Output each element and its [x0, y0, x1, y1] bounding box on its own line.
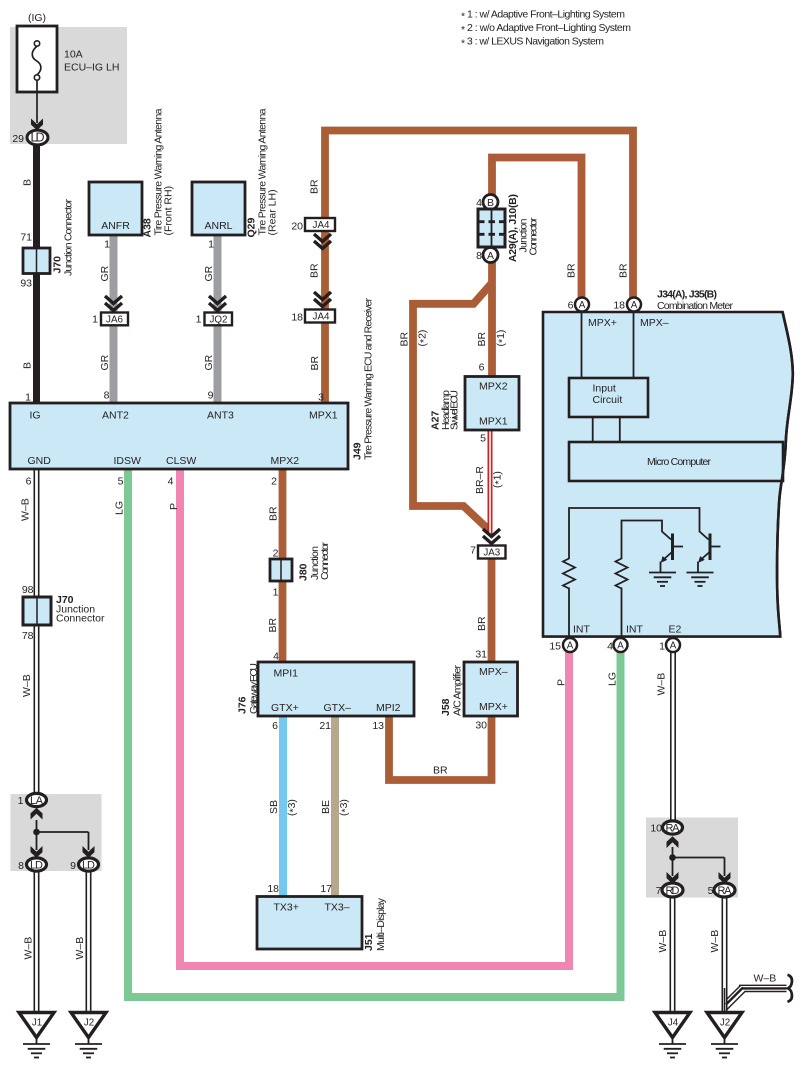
svg-text:SB: SB — [268, 800, 280, 814]
ground J2 (right) — [707, 1013, 742, 1058]
antenna A38 ANFR Tire Pressure Warning Antenna (Front RH) — [89, 108, 175, 250]
svg-text:LD: LD — [31, 131, 45, 145]
svg-text:LG: LG — [114, 501, 126, 515]
svg-text:ANT2: ANT2 — [102, 410, 129, 422]
svg-text:MPX+: MPX+ — [588, 317, 617, 329]
svg-text:INT: INT — [626, 624, 644, 636]
svg-text:CLSW: CLSW — [166, 455, 196, 467]
svg-text:78: 78 — [22, 630, 34, 642]
svg-text:J4: J4 — [668, 1018, 679, 1029]
junction JA4 pin 18 — [291, 292, 335, 324]
meter top pin 18 (A) — [613, 298, 641, 312]
wire W-B branch stub with brace — [725, 973, 792, 1014]
internal wire to transistor Q2 collector — [569, 508, 709, 558]
svg-text:7: 7 — [470, 545, 476, 557]
svg-text:RA: RA — [718, 885, 733, 897]
svg-text:MPX+: MPX+ — [479, 701, 508, 713]
connector oval LD pin 29 — [12, 130, 48, 145]
wire BR from J49 MPX1 pin 3 via JA4 to Combination Meter MPX- pin 18 — [309, 131, 634, 405]
wire LG from J49 IDSW pin 5 to Combination Meter INT pin 4 — [114, 469, 621, 997]
svg-text:MPI1: MPI1 — [274, 668, 299, 680]
svg-text:A: A — [579, 300, 586, 311]
wire BR (*1) from junction A29 pin 8 to A27 MPX2 pin 6 — [476, 262, 509, 377]
svg-text:ANT3: ANT3 — [207, 410, 234, 422]
svg-text:13: 13 — [372, 720, 384, 732]
connector panel (RA/RD ovals) — [646, 818, 738, 898]
svg-text:MPX1: MPX1 — [479, 416, 508, 428]
ground J1 — [19, 1013, 54, 1058]
svg-text:9: 9 — [70, 860, 76, 872]
svg-text:5: 5 — [118, 476, 124, 488]
svg-text:BR: BR — [399, 331, 411, 346]
transistor Q1 — [661, 534, 684, 574]
svg-text:MPX2: MPX2 — [271, 455, 300, 467]
svg-text:J76: J76 — [237, 696, 249, 714]
wire W-B from RA 5 to ground J2 — [709, 896, 725, 1013]
svg-text:JA4: JA4 — [313, 312, 330, 323]
input circuit block — [569, 378, 648, 417]
svg-text:18: 18 — [291, 312, 303, 324]
svg-text:Input: Input — [593, 383, 616, 395]
arrow up below RA — [667, 836, 679, 848]
svg-text:B: B — [487, 197, 494, 209]
ground J2 (left) — [71, 1013, 106, 1058]
junction connector J70 lower pins 98/78 — [22, 584, 105, 642]
svg-text:1: 1 — [208, 239, 214, 251]
svg-text:Combination Meter: Combination Meter — [657, 300, 734, 312]
svg-text:MPX1: MPX1 — [309, 410, 338, 422]
svg-text:W–B: W–B — [754, 973, 777, 985]
svg-text:1: 1 — [196, 314, 202, 326]
wire BR from JA3 to J58 MPX- pin 31 — [475, 559, 491, 664]
svg-text:BR: BR — [309, 263, 321, 278]
svg-text:INT: INT — [573, 624, 591, 636]
amplifier J58 A/C Amplifier — [440, 662, 518, 716]
svg-text:31: 31 — [475, 649, 487, 661]
multi-display J51 pins 18/17 — [257, 883, 387, 951]
wire BR from junction A29 to Combination Meter MPX+ pin 6 — [492, 158, 582, 301]
svg-text:2: 2 — [271, 476, 277, 488]
wire W-B from Combination Meter E2 pin 1 to RA oval 10 — [656, 651, 674, 822]
svg-text:6: 6 — [272, 720, 278, 732]
svg-text:Connector: Connector — [319, 542, 331, 581]
svg-text:1: 1 — [104, 239, 110, 251]
svg-text:29: 29 — [12, 133, 24, 145]
svg-text:A: A — [567, 641, 574, 652]
svg-text:17: 17 — [320, 883, 332, 895]
connector oval RA pin 5 — [708, 883, 735, 897]
svg-text:BR: BR — [476, 331, 488, 346]
svg-text:93: 93 — [20, 278, 32, 290]
svg-text:Tire Pressure Warning ECU and: Tire Pressure Warning ECU and Receiver — [363, 298, 375, 461]
svg-text:BR: BR — [268, 506, 280, 521]
svg-text:(IG): (IG) — [28, 12, 46, 24]
svg-text:15: 15 — [549, 641, 561, 653]
svg-text:4: 4 — [607, 641, 613, 653]
svg-text:(Front RH): (Front RH) — [163, 186, 175, 236]
connector oval LA pin 1 — [18, 793, 47, 807]
ground inside meter (Q2) — [687, 573, 714, 587]
wires input circuit to micro computer — [593, 417, 620, 442]
wire MPX+ to input circuit — [581, 312, 583, 378]
svg-text:A: A — [631, 300, 638, 311]
junction JA3 pin 7 — [470, 529, 505, 559]
svg-text:W–B: W–B — [709, 930, 721, 953]
wire BE (*3) from J76 GTX- pin 21 to J51 TX3- pin 17 — [320, 716, 352, 897]
svg-text:P: P — [168, 503, 180, 510]
wire B (black) from fuse LD to J49 IG pin 1 — [22, 140, 37, 404]
svg-text:MPX2: MPX2 — [479, 381, 508, 393]
meter bottom pin 1 (A) — [659, 638, 680, 653]
meter bottom pin 4 (A) — [607, 638, 627, 653]
svg-text:JA6: JA6 — [106, 315, 123, 326]
junction JA6 pin 1 — [92, 296, 128, 402]
meter bottom pin 15 (A) — [549, 638, 577, 653]
svg-text:Circuit: Circuit — [593, 394, 623, 406]
wire W-B from J49 GND pin 6 to LA oval — [20, 469, 37, 795]
svg-text:BR: BR — [476, 616, 488, 631]
transistor Q2 — [698, 534, 721, 574]
svg-text:Junction Connector: Junction Connector — [63, 199, 75, 277]
svg-text:J1: J1 — [32, 1018, 42, 1029]
svg-text:98: 98 — [22, 584, 34, 596]
svg-text:B: B — [22, 362, 34, 369]
svg-text:BR: BR — [309, 355, 321, 370]
svg-text:W–B: W–B — [656, 673, 668, 696]
svg-text:ANFR: ANFR — [101, 220, 130, 232]
svg-text:10A: 10A — [64, 49, 83, 61]
svg-text:BR: BR — [618, 263, 630, 278]
svg-text:J51: J51 — [363, 933, 375, 951]
junction connector A29(A), J10(B) — [476, 194, 539, 263]
svg-text:6: 6 — [479, 362, 485, 374]
svg-text:A: A — [670, 641, 677, 652]
wire from fuse to LD oval 29 — [31, 81, 43, 131]
svg-text:(*1): (*1) — [492, 471, 506, 488]
svg-text:W–B: W–B — [74, 937, 86, 960]
connector panel (LA/LD ovals) — [11, 794, 102, 871]
junction JQ2 pin 1 — [196, 296, 232, 402]
svg-text:4: 4 — [476, 197, 482, 209]
svg-text:MPI2: MPI2 — [376, 702, 401, 714]
wire W-B from LD 9 to ground J2 — [74, 870, 89, 1013]
svg-text:ECU–IG LH: ECU–IG LH — [64, 62, 119, 74]
svg-text:TX3–: TX3– — [325, 902, 350, 914]
svg-text:9: 9 — [208, 390, 214, 402]
svg-text:18: 18 — [267, 883, 279, 895]
wire and junction dot in LA/LD panel — [33, 820, 88, 850]
svg-text:BR: BR — [267, 617, 279, 632]
svg-text:W–B: W–B — [657, 930, 669, 953]
svg-text:J34(A), J35(B): J34(A), J35(B) — [657, 289, 717, 301]
svg-text:21: 21 — [319, 720, 331, 732]
meter top pin 6 (A) — [568, 298, 589, 312]
wire SB (*3) from J76 GTX+ pin 6 to J51 TX3+ pin 18 — [268, 716, 300, 897]
svg-text:J2: J2 — [720, 1018, 730, 1029]
svg-text:1: 1 — [659, 641, 665, 653]
svg-text:JQ2: JQ2 — [210, 315, 228, 326]
svg-text:10: 10 — [650, 823, 662, 835]
svg-text:BR–R: BR–R — [474, 466, 486, 494]
svg-text:BR: BR — [433, 765, 448, 777]
svg-text:E2: E2 — [669, 624, 682, 636]
svg-text:W–B: W–B — [23, 937, 35, 960]
ground inside meter (Q1) — [649, 573, 676, 587]
svg-text:(Rear LH): (Rear LH) — [267, 189, 279, 235]
connector oval RA pin 10 — [650, 821, 682, 835]
svg-text:GND: GND — [28, 455, 52, 467]
wire BR from J58 MPX+ pin 30 to J76 MPI2 pin 13 — [389, 716, 492, 780]
ground J4 — [655, 1013, 690, 1058]
svg-text:IG: IG — [30, 410, 41, 422]
svg-text:GR: GR — [99, 354, 111, 370]
combination meter J34(A), J35(B) — [543, 289, 793, 637]
fuse block panel — [10, 27, 127, 144]
svg-text:LD: LD — [82, 859, 95, 871]
note legend *1 *2 *3 — [461, 9, 631, 50]
internal wire to transistor Q1 collector — [622, 521, 672, 559]
svg-text:LD: LD — [30, 859, 43, 871]
junction JA4 pin 20 — [291, 218, 335, 249]
svg-text:(*2): (*2) — [417, 330, 431, 347]
gateway ECU J76 — [237, 651, 415, 733]
ECU A27 Headlamp Swivel ECU — [430, 362, 520, 445]
wire P from J49 CLSW pin 4 to Combination Meter INT pin 15 — [168, 469, 569, 966]
svg-text:J2: J2 — [84, 1018, 94, 1029]
wire BR (*2) branch from A29 pin 8 to junction JA3 — [399, 284, 492, 530]
svg-text:1: 1 — [273, 587, 279, 599]
svg-text:Connector: Connector — [56, 613, 105, 625]
svg-text:IDSW: IDSW — [114, 455, 142, 467]
connector oval RD pin 7 — [656, 883, 683, 897]
svg-text:BE: BE — [320, 800, 332, 814]
svg-text:MPX–: MPX– — [640, 317, 669, 329]
svg-text:71: 71 — [20, 232, 32, 244]
svg-text:20: 20 — [291, 221, 303, 233]
svg-text:RA: RA — [666, 822, 681, 834]
svg-text:Connector: Connector — [528, 217, 540, 256]
svg-text:18: 18 — [613, 300, 625, 312]
svg-text:GTX+: GTX+ — [271, 702, 299, 714]
svg-text:GR: GR — [203, 265, 215, 281]
svg-text:Swivel ECU: Swivel ECU — [449, 390, 461, 430]
svg-text:(*3): (*3) — [286, 799, 300, 816]
svg-text:GTX–: GTX– — [324, 702, 352, 714]
meter torn right edge — [777, 312, 793, 637]
svg-text:RD: RD — [666, 885, 680, 897]
ECU J49 Tire Pressure Warning ECU and Receiver — [10, 298, 375, 488]
svg-text:LG: LG — [607, 672, 619, 686]
svg-text:(*3): (*3) — [338, 799, 352, 816]
svg-text:8: 8 — [476, 250, 482, 262]
svg-text:A/C Amplifier: A/C Amplifier — [452, 665, 464, 717]
svg-text:J80: J80 — [298, 563, 310, 581]
arrow down to LD 9 — [83, 846, 95, 858]
micro computer block — [569, 442, 783, 481]
svg-text:LA: LA — [30, 795, 44, 807]
svg-text:TX3+: TX3+ — [274, 902, 299, 914]
wire W-B from RD 7 to ground J4 — [657, 896, 673, 1013]
svg-text:BR: BR — [309, 179, 321, 194]
arrow up below LA — [31, 808, 43, 820]
meter bottom pin labels INT INT E2 — [573, 624, 682, 636]
wire GR from ANFR pin 1 to J49 ANT2 pin 8 — [99, 235, 114, 404]
svg-text:J58: J58 — [440, 698, 452, 716]
wire GR from ANRL pin 1 to J49 ANT3 pin 9 — [203, 235, 218, 404]
wire W-B from LD 8 to ground J1 — [23, 870, 37, 1013]
svg-text:A: A — [487, 250, 494, 262]
svg-text:GR: GR — [203, 354, 215, 370]
resistor R2 — [616, 558, 628, 639]
wire BR from J49 MPX2 pin 2 via J80 to J76 MPI1 pin 4 — [267, 469, 283, 663]
svg-text:JA3: JA3 — [483, 548, 500, 559]
svg-text:1: 1 — [92, 314, 98, 326]
wire MPX- to input circuit — [633, 312, 635, 378]
svg-text:Gateway ECU: Gateway ECU — [248, 663, 260, 714]
svg-text:* 2 : w/o Adaptive Front–Light: * 2 : w/o Adaptive Front–Lighting System — [461, 22, 631, 36]
wire and junction dot in RA/RD panel — [669, 847, 724, 876]
resistor R1 — [563, 558, 575, 639]
svg-text:GR: GR — [99, 265, 111, 281]
svg-text:* 3 : w/ LEXUS Navigation Syst: * 3 : w/ LEXUS Navigation System — [461, 36, 604, 50]
wire BR-R (*1) from A27 MPX1 pin 5 to junction JA3 — [474, 430, 505, 534]
antenna Q29 ANRL Tire Pressure Warning Antenna (Rear LH) — [192, 108, 279, 250]
svg-text:MPX–: MPX– — [479, 666, 508, 678]
svg-text:W–B: W–B — [21, 674, 33, 697]
svg-text:ANRL: ANRL — [204, 220, 232, 232]
svg-text:B: B — [22, 179, 34, 186]
svg-text:5: 5 — [480, 433, 486, 445]
arrow down to RD 7 — [667, 872, 679, 884]
svg-text:30: 30 — [475, 720, 487, 732]
svg-text:P: P — [556, 679, 568, 686]
svg-text:Multi–Display: Multi–Display — [375, 897, 387, 951]
svg-text:(*1): (*1) — [495, 330, 509, 347]
junction connector J70 upper pins 71/93 — [20, 199, 74, 290]
svg-text:Micro Computer: Micro Computer — [647, 456, 712, 468]
svg-text:* 1 : w/ Adaptive Front–Lighti: * 1 : w/ Adaptive Front–Lighting System — [461, 9, 625, 23]
svg-text:6: 6 — [26, 476, 32, 488]
svg-text:W–B: W–B — [20, 498, 32, 521]
arrow down to LD 8 — [31, 846, 43, 858]
connector oval LD pin 9 — [70, 858, 98, 872]
junction connector J80 pins 2/1 — [270, 542, 331, 599]
arrow down to RA 5 — [719, 872, 731, 884]
svg-text:4: 4 — [168, 476, 174, 488]
svg-text:8: 8 — [104, 390, 110, 402]
svg-text:1: 1 — [18, 795, 24, 807]
svg-text:A: A — [617, 641, 624, 652]
svg-text:BR: BR — [566, 263, 578, 278]
connector oval LD pin 8 — [18, 858, 46, 872]
fuse 10A ECU-IG LH — [17, 12, 119, 92]
svg-text:6: 6 — [568, 300, 574, 312]
svg-text:JA4: JA4 — [313, 220, 330, 231]
svg-text:8: 8 — [18, 860, 24, 872]
